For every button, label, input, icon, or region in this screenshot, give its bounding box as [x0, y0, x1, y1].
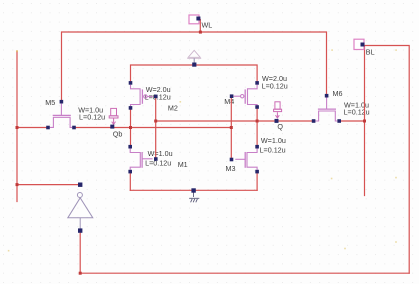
- svg-text:L=0.12u: L=0.12u: [260, 145, 286, 154]
- vdd symbol terminal: [192, 63, 196, 67]
- junction node Qb at M3/M4 gate line: [230, 126, 233, 129]
- junction WL pin stub / WL rail: [199, 31, 202, 34]
- transistor M4 (PMOS) body: [234, 85, 258, 107]
- svg-text:M3: M3: [226, 164, 236, 173]
- svg-text:L=0.12u: L=0.12u: [344, 107, 370, 116]
- M1 drain pin terminal: [128, 145, 132, 149]
- wire left drain segments: [130, 110, 132, 146]
- svg-text:BL: BL: [366, 48, 375, 57]
- wire Qb node horizontal: [76, 127, 232, 129]
- M3 gate pin terminal: [230, 158, 234, 162]
- wire GND bottom rail: [130, 189, 257, 191]
- svg-text:L=0.12u: L=0.12u: [145, 159, 171, 168]
- M4 gate pin terminal: [230, 94, 234, 98]
- junction inverter input / bottom wire: [79, 272, 82, 275]
- svg-text:L=0.12u: L=0.12u: [79, 112, 105, 121]
- pin Q connection square: [275, 119, 279, 123]
- junction node Q at M1/M2 gate line: [154, 120, 157, 123]
- wire BLbar vertical (inverter output line): [16, 51, 18, 201]
- wire BL vertical drop: [364, 47, 366, 196]
- wire WL pin stub: [199, 20, 201, 33]
- M3 source pin terminal: [255, 170, 259, 174]
- dangling wire tip marker: [16, 50, 18, 52]
- M6 gate pin terminal: [325, 94, 329, 98]
- M6 right S/D pin terminal: [337, 119, 341, 123]
- M6 left S/D pin terminal: [312, 119, 316, 123]
- svg-text:L=0.12u: L=0.12u: [145, 93, 171, 102]
- junction node Qb at M1/M2 drains: [129, 126, 132, 129]
- pin Qb connection square: [110, 125, 114, 129]
- wire right drain segments: [256, 109, 258, 145]
- svg-text:M2: M2: [168, 103, 178, 112]
- svg-text:W=1.0u: W=1.0u: [261, 136, 286, 145]
- wire right inverter gate line: [230, 98, 232, 158]
- pin Q glyph: [274, 102, 282, 118]
- pin WL symbol box: [189, 15, 200, 24]
- ground symbol: [189, 193, 199, 203]
- M4 source pin terminal: [255, 81, 259, 85]
- junction node BL at M6 drain wire: [363, 120, 366, 123]
- transistor M2 (PMOS) body: [131, 85, 153, 107]
- M3 drain pin terminal: [255, 145, 259, 149]
- wire M6 right lead to BL: [341, 120, 365, 122]
- transistor M6 (NMOS access, gate up) body: [315, 98, 337, 122]
- wire inverter input drop: [79, 232, 81, 273]
- wire Q node horizontal: [156, 120, 314, 122]
- inverter output terminal: [78, 183, 82, 187]
- wire left inverter gate line: [155, 98, 157, 157]
- wire bottom long horizontal: [80, 272, 409, 274]
- junction BLbar line / M5 source wire: [16, 126, 19, 129]
- wire BL top to right edge and down: [365, 46, 410, 274]
- svg-text:W=1.0u: W=1.0u: [148, 149, 173, 158]
- M1 source pin terminal: [128, 170, 132, 174]
- inverter input terminal: [78, 228, 82, 232]
- transistor M5 (NMOS access, gate up) body: [50, 104, 72, 128]
- wire VDD rail with side drops: [131, 65, 258, 81]
- junction node Q at M3/M4 drains: [256, 120, 259, 123]
- M5 gate pin terminal: [60, 100, 64, 104]
- svg-text:Q: Q: [277, 122, 283, 131]
- vdd symbol: [187, 50, 201, 62]
- pin Qb glyph: [109, 108, 118, 124]
- svg-text:M5: M5: [45, 98, 55, 107]
- M1 gate pin terminal: [154, 157, 158, 161]
- M2 drain pin terminal: [129, 106, 133, 110]
- transistor M1 (NMOS) body: [130, 149, 152, 170]
- wire M5 left lead: [17, 127, 47, 129]
- wire inverter output horizontal: [17, 184, 80, 186]
- M5 right S/D pin terminal: [72, 126, 76, 130]
- svg-text:M4: M4: [224, 97, 234, 106]
- M5 left S/D pin terminal: [46, 126, 50, 130]
- svg-text:Qb: Qb: [113, 129, 123, 138]
- pin BL symbol box: [354, 39, 365, 49]
- M4 drain pin terminal: [255, 105, 259, 109]
- junction BLbar line / inverter output wire: [16, 183, 19, 186]
- wire WL rail with drops to M5/M6 gates: [62, 32, 327, 101]
- svg-text:M6: M6: [333, 89, 343, 98]
- ground symbol terminal: [191, 188, 195, 192]
- M2 source pin terminal: [129, 81, 133, 85]
- svg-text:M1: M1: [178, 160, 188, 169]
- svg-text:WL: WL: [202, 21, 213, 30]
- inverter (write driver): [68, 193, 93, 229]
- transistor M3 (NMOS) body: [235, 149, 257, 170]
- svg-text:L=0.12u: L=0.12u: [262, 81, 288, 90]
- M2 gate pin terminal: [154, 95, 158, 99]
